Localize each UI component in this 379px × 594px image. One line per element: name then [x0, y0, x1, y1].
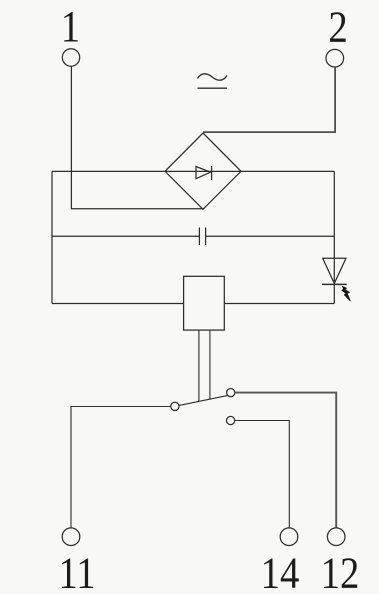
relay coil K1 [184, 276, 225, 330]
LED D1 cathode bar [322, 283, 347, 285]
terminal 14 [280, 528, 298, 546]
capacitor C1 plates [199, 228, 205, 246]
diode inside bridge [196, 167, 211, 179]
bridge rectifier U1 diamond [165, 133, 241, 209]
switch pole contact [171, 402, 179, 410]
right bus vertical [333, 171, 335, 303]
bottom bus right segment [224, 303, 334, 305]
terminal 11 [62, 528, 80, 546]
svg-text:14: 14 [261, 548, 300, 594]
mechanical linkage double line [199, 330, 210, 401]
switch lever [179, 395, 228, 405]
terminal 1 [62, 49, 79, 66]
svg-text:2: 2 [328, 2, 347, 51]
wire terminal 1 to bridge bottom vertex [71, 66, 203, 209]
svg-text:12: 12 [321, 548, 360, 594]
wire terminal 2 to bridge top vertex [203, 67, 335, 132]
left bus vertical [51, 171, 53, 303]
bridge mid wire (left bus to right bus) [52, 170, 334, 172]
LED D1 triangle [323, 258, 346, 283]
wire NC to terminal 12 [235, 393, 336, 528]
LED light arrow [342, 286, 351, 301]
bottom bus left segment [52, 303, 184, 305]
terminal 2 [326, 49, 344, 67]
wire pole to terminal 11 [71, 407, 171, 528]
switch NC contact [227, 389, 235, 397]
svg-text:11: 11 [58, 548, 95, 594]
switch NO contact [227, 416, 235, 424]
AC symbol [198, 74, 228, 88]
terminal 12 [327, 528, 345, 546]
diode cathode bar [211, 166, 213, 180]
capacitor C1 right wire [206, 235, 335, 237]
capacitor C1 left wire [52, 235, 199, 237]
svg-text:1: 1 [61, 2, 80, 51]
wire NO to terminal 14 [235, 421, 290, 528]
